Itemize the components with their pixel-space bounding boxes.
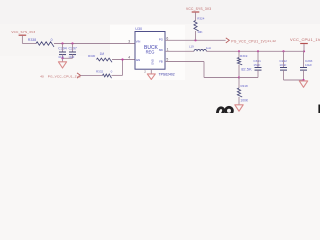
- ground (IC GND pin): [147, 69, 155, 79]
- capacitor C294 10uF: [58, 44, 67, 59]
- resistor R324 value 10K: [194, 17, 205, 41]
- svg-text:3: 3: [128, 40, 130, 44]
- node: junction C293/power: [303, 50, 305, 52]
- svg-text:PG_VCC_CPU1_1V1: PG_VCC_CPU1_1V1: [231, 39, 267, 43]
- node: junction C292: [282, 50, 284, 52]
- resistor R330 value 1M: [88, 52, 112, 62]
- node: junction R324/PG: [194, 39, 196, 41]
- svg-text:VCC_SYS_3V3: VCC_SYS_3V3: [11, 30, 35, 34]
- node: junction divider: [238, 50, 240, 52]
- svg-text:1M: 1M: [100, 52, 105, 56]
- svg-text:0: 0: [51, 38, 53, 42]
- ground (left, below C294): [58, 58, 66, 68]
- svg-text:41,42: 41,42: [267, 39, 276, 43]
- wire: FB pin to divider: [165, 62, 239, 78]
- svg-text:L19: L19: [189, 45, 194, 49]
- wire: C292/C293 bottom rail: [284, 79, 304, 81]
- node: junction EN row: [121, 58, 123, 60]
- svg-text:R338: R338: [28, 38, 36, 42]
- svg-text:100K: 100K: [240, 98, 249, 102]
- wire: R338 to IC pin 3 (VIN rail): [54, 43, 135, 45]
- svg-text:10K: 10K: [197, 30, 202, 34]
- ground (below C293): [299, 81, 307, 87]
- svg-text:40: 40: [40, 74, 44, 78]
- power symbol VCC_SYS_3V3 (left): [11, 30, 35, 44]
- power symbol VCC_SYS_3V3 (top): [186, 7, 211, 20]
- svg-text:VCC_CPU1_1V1: VCC_CPU1_1V1: [290, 37, 320, 42]
- inductor L19 value 1uH: [189, 45, 211, 52]
- svg-text:82.5K: 82.5K: [241, 66, 252, 71]
- node: junction C293 bottom: [302, 79, 304, 81]
- node: junction C294 on VIN rail: [61, 42, 63, 44]
- wire: riser up to EN row: [122, 60, 124, 76]
- svg-text:U30: U30: [135, 27, 142, 31]
- svg-text:EN: EN: [136, 58, 140, 62]
- wire: port to R332: [80, 74, 102, 76]
- node: FB junction: [238, 76, 240, 78]
- wire: output rail L19 to power: [206, 50, 304, 52]
- svg-text:R330: R330: [88, 54, 96, 58]
- wire: cap bottoms rail: [63, 57, 73, 59]
- wire: SW pin to L19: [165, 50, 194, 52]
- ground (below R318): [235, 105, 243, 111]
- handwritten mark (bottom): [217, 107, 232, 114]
- wire: C341 bottom to FB node: [239, 77, 258, 79]
- resistor R332 value 0: [96, 70, 113, 79]
- svg-text:4: 4: [128, 56, 130, 60]
- power symbol VCC_CPU1_1V1 (right): [290, 37, 320, 51]
- resistor R318 value 100K: [237, 78, 249, 105]
- svg-text:R332: R332: [96, 70, 104, 74]
- capacitor C292 10uF: [279, 51, 287, 80]
- svg-text:REG: REG: [146, 49, 155, 54]
- svg-text:R324: R324: [197, 17, 205, 21]
- port PG_VCC_CPU1_1V1 41,42 (output): [226, 38, 276, 43]
- svg-text:PG_VCC_CPU1_1V0: PG_VCC_CPU1_1V0: [48, 75, 81, 79]
- port 40 PG_VCC_CPU1_1V0 (input, left): [40, 73, 81, 79]
- capacitor C297 10uF: [68, 44, 77, 59]
- svg-text:15pF: 15pF: [253, 63, 260, 67]
- resistor R338 value 0: [28, 38, 54, 47]
- resistor R319 value 82.5K: [237, 51, 252, 77]
- wire: R330 to IC pin 4 (EN): [112, 59, 135, 61]
- IC U30 BUCK REG TPS62402: [135, 27, 165, 69]
- node: junction at C294 bottom: [61, 57, 63, 59]
- svg-text:R318: R318: [241, 84, 249, 88]
- wire: PG pin to port: [165, 39, 226, 41]
- svg-text:R319: R319: [240, 54, 248, 58]
- svg-text:TPS62402: TPS62402: [159, 72, 175, 76]
- black mark (bottom-right edge): [318, 105, 320, 114]
- svg-text:10uF: 10uF: [279, 63, 286, 67]
- wire: R332 to EN riser: [112, 74, 123, 76]
- svg-text:PG: PG: [159, 37, 163, 41]
- svg-text:VCC_SYS_3V3: VCC_SYS_3V3: [186, 7, 211, 11]
- node: junction C341: [257, 50, 259, 52]
- capacitor C341 15pF: [253, 51, 261, 77]
- svg-text:10uF: 10uF: [305, 63, 312, 67]
- node: junction C297 on VIN rail: [71, 42, 73, 44]
- capacitor C293 10uF: [300, 51, 313, 80]
- wire: power to R338: [22, 43, 36, 45]
